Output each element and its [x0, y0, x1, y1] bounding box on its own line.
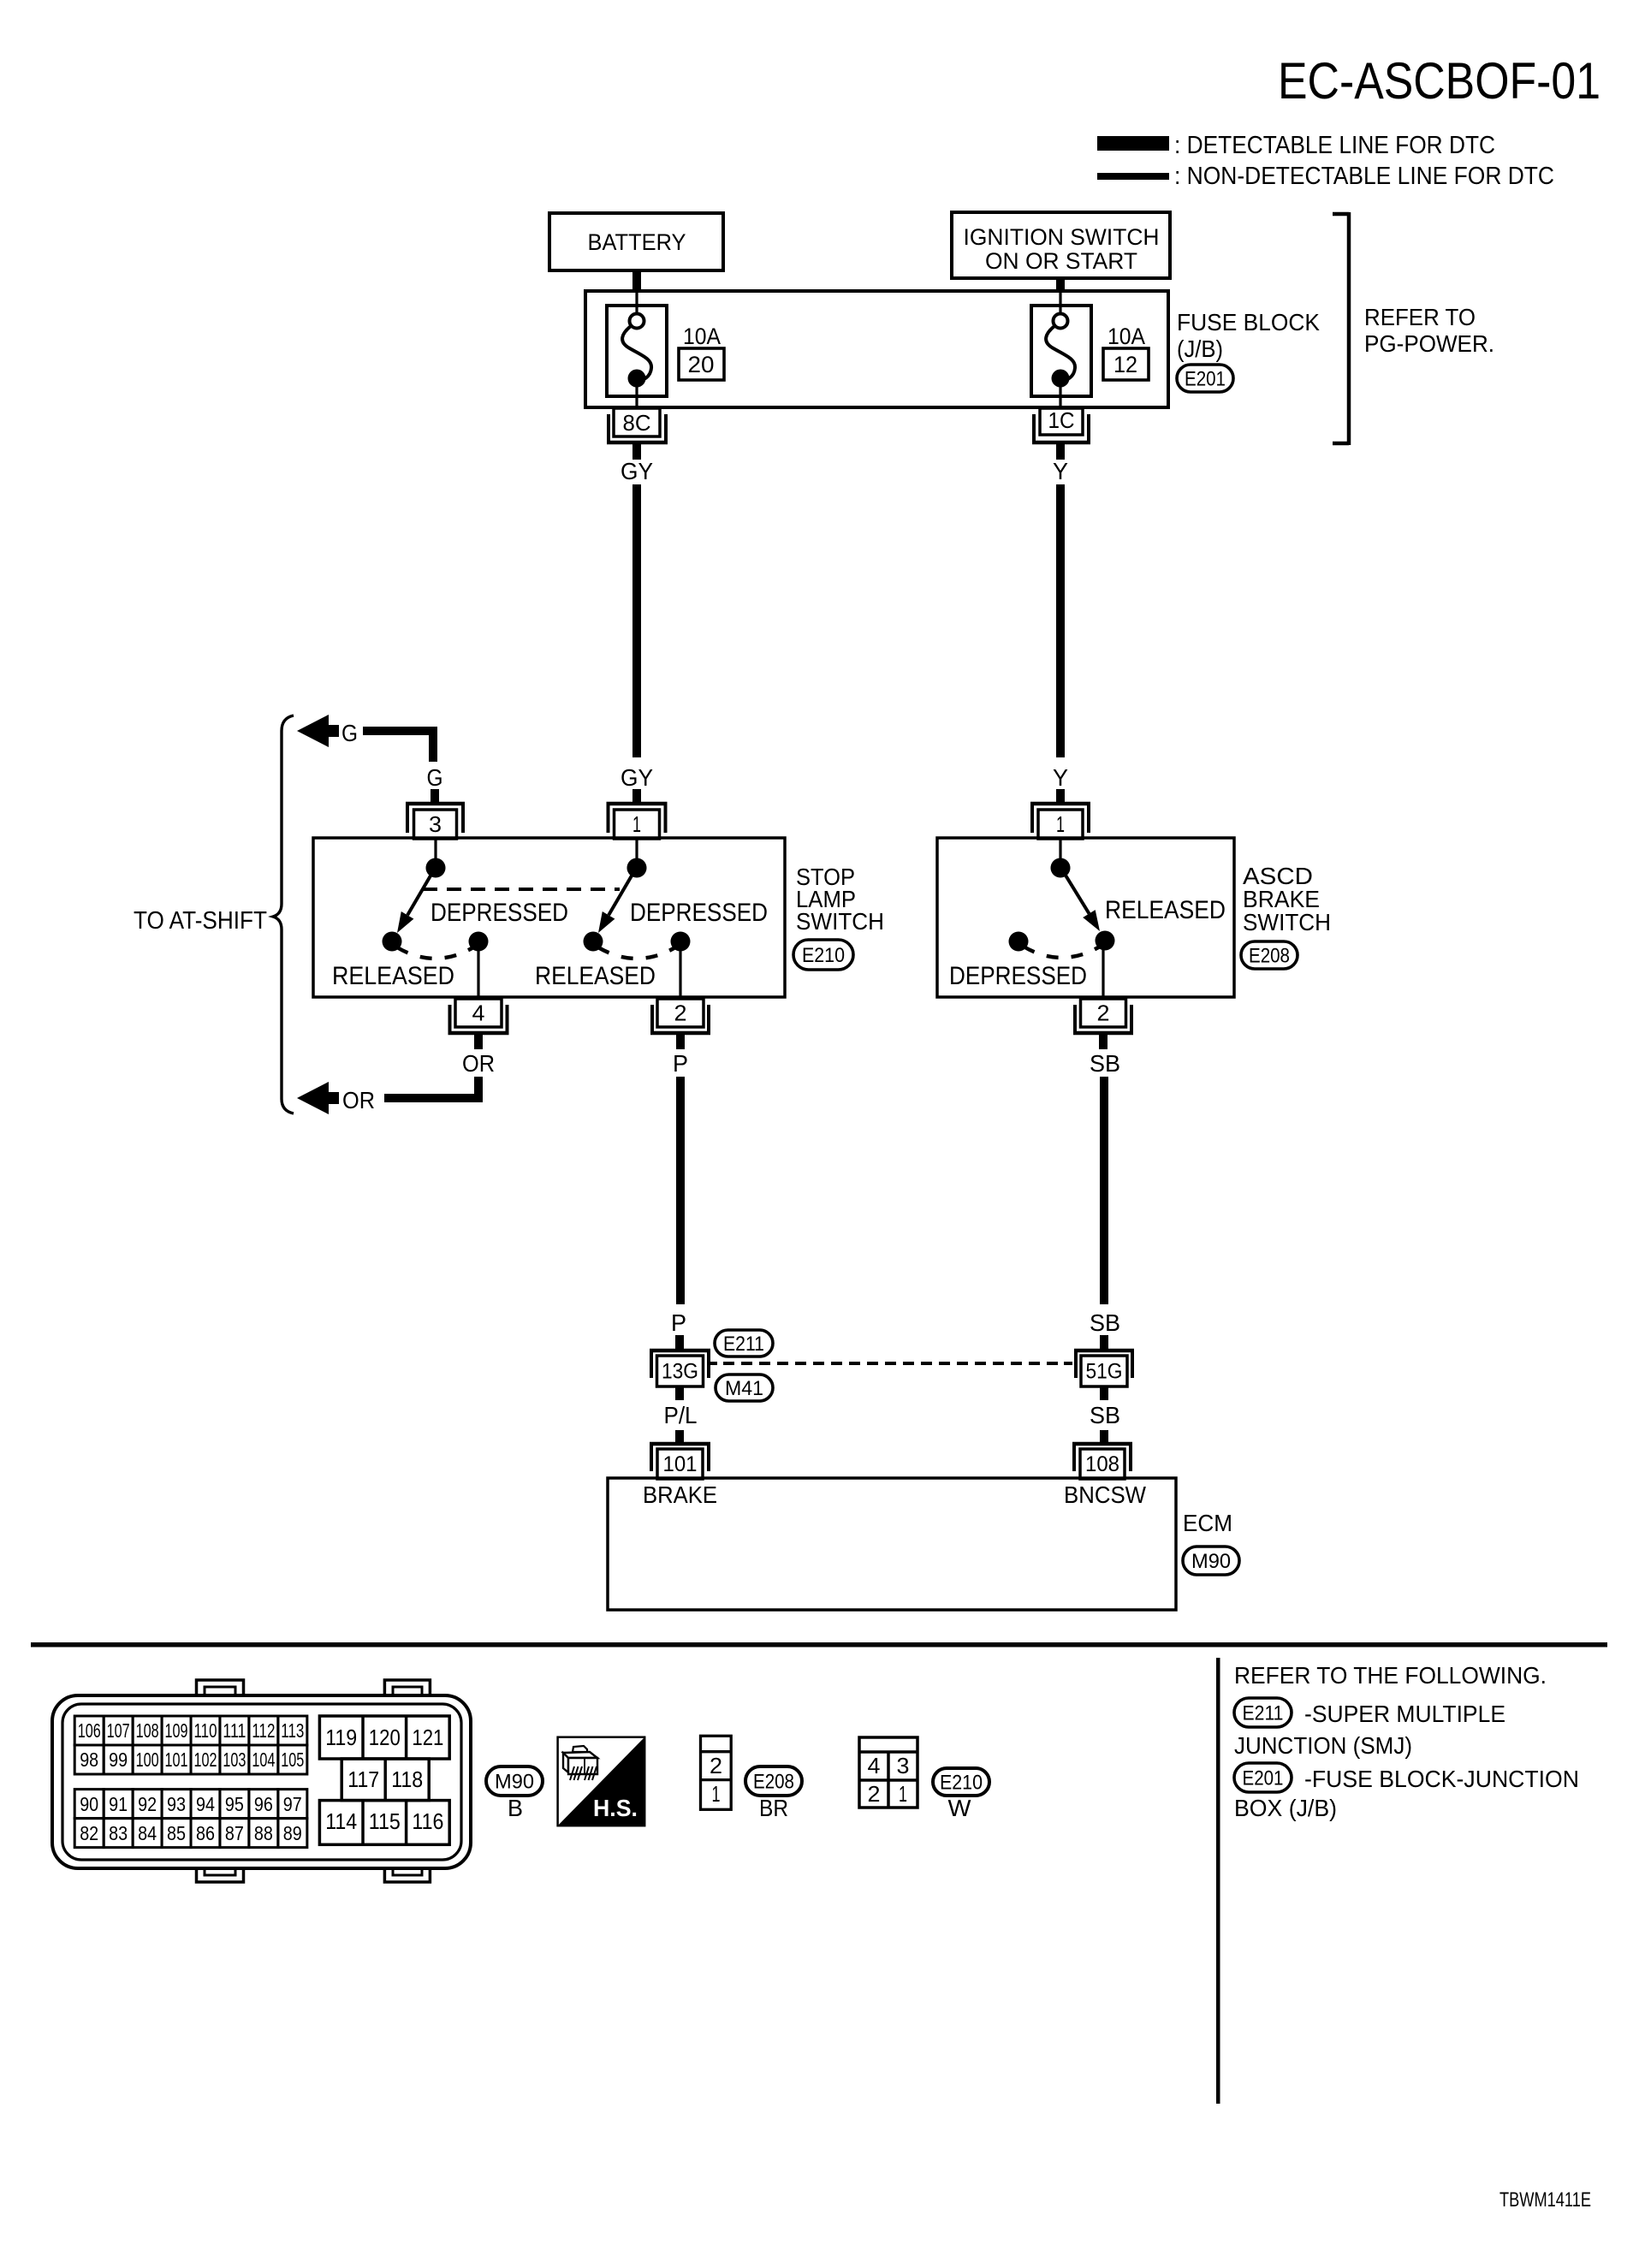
fuse 10A 20 symbol [607, 293, 667, 406]
svg-text:20: 20 [688, 352, 715, 377]
label RELEASED ASCD [1105, 896, 1226, 924]
svg-text:IGNITION SWITCH: IGNITION SWITCH [964, 224, 1160, 250]
wire G stub to pin 3 [431, 789, 439, 803]
connector E210 oval [793, 940, 853, 970]
battery box [549, 213, 723, 270]
SMJ dashed link 13G to 51G [709, 1362, 1072, 1365]
text super multiple junction [1234, 1701, 1505, 1759]
svg-text:Y: Y [1053, 764, 1068, 791]
svg-text:G: G [427, 764, 443, 791]
svg-text:113: 113 [281, 1719, 304, 1742]
svg-text:SWITCH: SWITCH [796, 908, 884, 935]
svg-text:M41: M41 [725, 1377, 763, 1400]
svg-text:101: 101 [165, 1748, 188, 1771]
svg-text:91: 91 [109, 1793, 128, 1815]
wire Y long vertical [1056, 484, 1065, 757]
svg-text:E210: E210 [802, 944, 845, 967]
svg-text:1: 1 [632, 811, 641, 837]
svg-text:DEPRESSED: DEPRESSED [431, 899, 568, 927]
svg-text:108: 108 [1085, 1452, 1119, 1476]
svg-text:1: 1 [712, 1781, 721, 1807]
ECM connector 101 [650, 1444, 710, 1479]
wire label Y lower [1053, 764, 1068, 791]
svg-text:SB: SB [1090, 1402, 1120, 1428]
ASCD brake switch pin 2 [1073, 999, 1133, 1033]
connector M90 oval bottom [486, 1766, 543, 1796]
connector E208 oval bottom [745, 1766, 802, 1796]
wire GY stub to pin 1 [632, 789, 641, 803]
svg-text:4: 4 [472, 1000, 485, 1025]
svg-text:87: 87 [225, 1822, 244, 1844]
stop lamp switch dashed throw arc 2 [598, 947, 675, 959]
ASCD switch arm arrow [1060, 867, 1100, 931]
label DEPRESSED 2 [630, 899, 768, 927]
svg-text:ECM: ECM [1183, 1510, 1232, 1536]
svg-text:B: B [508, 1795, 523, 1821]
svg-text:107: 107 [107, 1719, 130, 1742]
svg-text:JUNCTION (SMJ): JUNCTION (SMJ) [1234, 1732, 1412, 1759]
svg-text:112: 112 [252, 1719, 275, 1742]
legend non-detectable text [1174, 163, 1554, 190]
wire 51G down stub [1100, 1386, 1108, 1400]
refer to PG-POWER text [1364, 304, 1494, 357]
wire SB stub into 108 [1100, 1430, 1108, 1444]
svg-text:12: 12 [1113, 352, 1137, 377]
svg-text:108: 108 [136, 1719, 159, 1742]
label BNCSW [1064, 1481, 1147, 1508]
connector E211 oval [715, 1330, 773, 1357]
svg-text:-SUPER MULTIPLE: -SUPER MULTIPLE [1304, 1701, 1505, 1727]
ASCD switch contact wire [1059, 840, 1061, 863]
connector E210 oval bottom [933, 1768, 989, 1796]
svg-text:93: 93 [167, 1793, 186, 1815]
svg-text:: NON-DETECTABLE LINE FOR DTC: : NON-DETECTABLE LINE FOR DTC [1174, 163, 1554, 190]
ECM box [608, 1478, 1176, 1610]
connector E201 oval reference [1234, 1763, 1292, 1792]
wire label GY upper [621, 458, 653, 484]
connector 8C [607, 408, 668, 442]
svg-text:E211: E211 [723, 1333, 764, 1356]
svg-text:92: 92 [138, 1793, 157, 1815]
label G at arrow [341, 720, 358, 746]
svg-text:2: 2 [710, 1753, 722, 1778]
svg-text:111: 111 [223, 1719, 246, 1742]
connector M41 oval [716, 1374, 773, 1401]
legend non-detectable line sample [1097, 173, 1169, 180]
ASCD switch dashed throw arc [1024, 947, 1100, 958]
connector E208 oval [1241, 941, 1298, 969]
svg-text:116: 116 [412, 1808, 443, 1834]
svg-text:BATTERY: BATTERY [588, 229, 686, 255]
connector E208 pinout drawing [701, 1736, 732, 1809]
wire ASCD released dot to pin 2 [1102, 940, 1104, 997]
stop lamp switch dashed throw arc 1 [397, 947, 473, 959]
svg-text:E208: E208 [1249, 944, 1290, 967]
svg-text:-FUSE BLOCK-JUNCTION: -FUSE BLOCK-JUNCTION [1304, 1766, 1579, 1792]
wire label Y upper [1053, 458, 1068, 484]
svg-text:114: 114 [325, 1808, 357, 1834]
connector M90 oval [1183, 1547, 1239, 1575]
svg-text:SB: SB [1090, 1309, 1120, 1336]
connector E211 oval reference [1234, 1698, 1292, 1727]
refer to PG-POWER bracket [1333, 212, 1349, 445]
ECM connector M90 pinout drawing [52, 1680, 471, 1882]
stop lamp switch pin 4 [448, 999, 509, 1033]
connector E210 pinout drawing [859, 1737, 917, 1808]
svg-text:101: 101 [663, 1452, 698, 1476]
svg-text:P: P [671, 1309, 686, 1336]
svg-text:2: 2 [1097, 1000, 1110, 1025]
stop lamp switch pin 3 [406, 804, 465, 839]
svg-text:G: G [341, 720, 358, 746]
svg-text:H.S.: H.S. [593, 1795, 638, 1821]
stop lamp switch released dot 1R [469, 932, 489, 952]
svg-text:121: 121 [412, 1725, 443, 1750]
svg-text:BR: BR [759, 1795, 788, 1821]
stop lamp switch released dot 1L [383, 932, 402, 952]
svg-text:FUSE BLOCK: FUSE BLOCK [1177, 309, 1320, 335]
stop lamp switch arm 2 arrow [598, 867, 637, 933]
svg-text:SB: SB [1090, 1050, 1120, 1077]
svg-text:110: 110 [194, 1719, 217, 1742]
svg-text:118: 118 [391, 1766, 423, 1792]
ignition switch box [952, 212, 1170, 278]
svg-text:119: 119 [325, 1725, 357, 1750]
svg-text:RELEASED: RELEASED [1105, 896, 1226, 924]
svg-text:OR: OR [462, 1050, 495, 1077]
svg-text:100: 100 [136, 1748, 159, 1771]
svg-text:3: 3 [429, 811, 442, 837]
wire released dot to pin 2 [679, 942, 681, 997]
wire label G above pin 3 [427, 764, 443, 791]
svg-text:ON OR START: ON OR START [985, 248, 1137, 274]
fuse 12 rating label [1103, 324, 1149, 380]
svg-text:83: 83 [109, 1822, 128, 1844]
svg-text:1: 1 [1056, 811, 1065, 837]
wire SB stub into 51G [1100, 1335, 1108, 1350]
stop lamp switch pin 2 [650, 999, 710, 1033]
wire 1C down [1056, 444, 1065, 460]
wire 13G down stub [675, 1386, 684, 1400]
wire released dot to pin 4 [477, 942, 479, 997]
label B [508, 1795, 523, 1821]
svg-text:DEPRESSED: DEPRESSED [949, 962, 1087, 990]
wire ASCD pin 2 down [1099, 1035, 1108, 1049]
wire GY long vertical [632, 484, 641, 757]
label BRAKE [643, 1481, 717, 1508]
wire label P mid [671, 1309, 686, 1336]
stop lamp switch mechanical link dashed [423, 888, 620, 891]
wire label SB lower [1090, 1402, 1120, 1428]
svg-text:SWITCH: SWITCH [1243, 909, 1331, 935]
H.S. logo [558, 1737, 645, 1826]
svg-text:RELEASED: RELEASED [535, 962, 656, 990]
svg-text:10A: 10A [683, 324, 721, 349]
wire Y stub to pin 1 [1056, 789, 1065, 803]
svg-text:BOX (J/B): BOX (J/B) [1234, 1795, 1337, 1821]
stop lamp switch released dot 2L [584, 932, 603, 952]
svg-text:1: 1 [899, 1781, 907, 1807]
ASCD brake switch box [937, 838, 1234, 997]
svg-text:120: 120 [369, 1725, 401, 1750]
svg-text:W: W [948, 1795, 972, 1821]
wire OR to AT-SHIFT corner [384, 1077, 483, 1102]
bottom vertical divider [1216, 1658, 1220, 2104]
svg-text:P/L: P/L [664, 1402, 698, 1428]
svg-text:OR: OR [342, 1087, 375, 1113]
wire label P/L [664, 1402, 698, 1428]
connector E201 oval [1177, 365, 1233, 392]
svg-text:51G: 51G [1086, 1360, 1123, 1384]
label TO AT-SHIFT [134, 907, 267, 935]
svg-text:GY: GY [621, 458, 653, 484]
svg-text:115: 115 [369, 1808, 401, 1834]
label DEPRESSED ASCD [949, 962, 1087, 990]
svg-text:84: 84 [138, 1822, 157, 1844]
stop lamp switch box [313, 838, 785, 997]
ASCD switch depressed dot [1009, 932, 1029, 952]
wire ignition switch to fuse block [1056, 276, 1065, 292]
svg-text:(J/B): (J/B) [1177, 335, 1223, 362]
svg-text:BNCSW: BNCSW [1064, 1481, 1147, 1508]
svg-text:82: 82 [80, 1822, 98, 1844]
label ECM [1183, 1510, 1232, 1536]
svg-text:104: 104 [252, 1748, 275, 1771]
svg-text:106: 106 [78, 1719, 101, 1742]
svg-text:95: 95 [225, 1793, 244, 1815]
label RELEASED 1 [332, 962, 454, 990]
wire pin 4 down [474, 1035, 483, 1049]
stop lamp switch arm 1 arrow [397, 867, 436, 933]
wire G horizontal and corner [363, 727, 437, 762]
svg-text:BRAKE: BRAKE [643, 1481, 717, 1508]
svg-text:90: 90 [80, 1793, 98, 1815]
title EC-ASCBOF-01 [1278, 52, 1600, 110]
svg-text:M90: M90 [495, 1770, 534, 1793]
svg-text:: DETECTABLE LINE FOR DTC: : DETECTABLE LINE FOR DTC [1174, 132, 1495, 159]
svg-text:E208: E208 [753, 1770, 794, 1793]
ASCD brake switch label [1243, 863, 1331, 935]
arrow to AT-SHIFT wire OR [297, 1082, 339, 1114]
svg-text:1C: 1C [1048, 407, 1075, 433]
wire 8C down [632, 444, 641, 460]
fuse 20 rating label [679, 324, 724, 380]
label BR [759, 1795, 788, 1821]
wire label GY lower [621, 764, 653, 791]
to AT-SHIFT brace [273, 715, 294, 1113]
svg-text:86: 86 [196, 1822, 215, 1844]
svg-text:4: 4 [868, 1753, 881, 1778]
ECM connector 108 [1072, 1444, 1132, 1479]
svg-text:13G: 13G [662, 1360, 698, 1384]
separator line [31, 1642, 1607, 1648]
ASCD brake switch pin 1 [1030, 804, 1090, 839]
svg-text:EC-ASCBOF-01: EC-ASCBOF-01 [1278, 52, 1600, 110]
wire label SB mid [1090, 1309, 1120, 1336]
svg-text:E201: E201 [1185, 367, 1226, 390]
svg-text:P: P [673, 1050, 688, 1077]
label W [948, 1795, 972, 1821]
ASCD switch common dot [1051, 858, 1071, 878]
stop lamp switch contact 2 wire [635, 840, 638, 863]
label DEPRESSED 1 [431, 899, 568, 927]
ASCD switch released dot [1096, 931, 1115, 951]
wire label SB upper [1090, 1050, 1120, 1077]
wire P stub into 13G [675, 1335, 684, 1350]
svg-text:105: 105 [281, 1748, 304, 1771]
wire P long vertical [676, 1077, 685, 1304]
wire label P upper [673, 1050, 688, 1077]
stop lamp switch pin 1 [607, 804, 668, 839]
svg-text:97: 97 [283, 1793, 302, 1815]
svg-text:117: 117 [347, 1766, 379, 1792]
svg-text:88: 88 [254, 1822, 273, 1844]
svg-text:REFER TO: REFER TO [1364, 304, 1476, 330]
wire SB long vertical [1100, 1077, 1108, 1304]
ECM connector left pin grid rows 90-97 / 82-89 [74, 1790, 307, 1848]
svg-text:DEPRESSED: DEPRESSED [630, 899, 768, 927]
label OR at arrow [342, 1087, 375, 1113]
svg-text:3: 3 [897, 1753, 910, 1778]
fuse block label [1177, 309, 1320, 362]
stop lamp switch released dot 2R [671, 932, 691, 952]
wire label OR upper [462, 1050, 495, 1077]
wire pin 2 down [676, 1035, 685, 1049]
svg-text:E210: E210 [940, 1771, 983, 1794]
text fuse block junction box [1234, 1766, 1579, 1821]
svg-text:8C: 8C [623, 410, 651, 436]
fuse 10A 12 symbol [1031, 293, 1091, 406]
svg-text:PG-POWER.: PG-POWER. [1364, 330, 1494, 357]
legend detectable line sample [1097, 136, 1169, 151]
svg-text:89: 89 [283, 1822, 302, 1844]
svg-text:96: 96 [254, 1793, 273, 1815]
connector 1C [1032, 407, 1090, 442]
svg-text:109: 109 [165, 1719, 188, 1742]
svg-text:M90: M90 [1191, 1550, 1231, 1573]
svg-text:REFER TO THE FOLLOWING.: REFER TO THE FOLLOWING. [1234, 1662, 1547, 1689]
svg-text:TO AT-SHIFT: TO AT-SHIFT [134, 907, 267, 935]
svg-text:TBWM1411E: TBWM1411E [1499, 2188, 1591, 2212]
stop lamp switch contact 2 common dot [627, 858, 647, 878]
svg-text:2: 2 [674, 1000, 687, 1025]
svg-text:10A: 10A [1108, 324, 1145, 349]
wire battery to fuse block [632, 269, 641, 292]
svg-text:RELEASED: RELEASED [332, 962, 454, 990]
fuse block J/B outline [585, 291, 1168, 407]
SMJ connector 13G [650, 1351, 710, 1386]
svg-text:GY: GY [621, 764, 653, 791]
figure code TBWM1411E [1499, 2188, 1591, 2212]
stop lamp switch contact 1 common dot [426, 858, 446, 878]
svg-text:103: 103 [223, 1748, 246, 1771]
wire P/L stub into 101 [675, 1430, 684, 1444]
svg-text:Y: Y [1053, 458, 1068, 484]
svg-text:98: 98 [80, 1748, 98, 1771]
SMJ connector 51G [1074, 1351, 1134, 1386]
legend detectable text [1174, 132, 1495, 159]
ECM connector left pin grid rows 106-113 / 98-105 [74, 1716, 307, 1774]
label RELEASED 2 [535, 962, 656, 990]
svg-text:94: 94 [196, 1793, 215, 1815]
refer to the following text block [1234, 1662, 1547, 1689]
svg-text:E201: E201 [1243, 1766, 1284, 1790]
svg-text:E211: E211 [1243, 1701, 1284, 1725]
svg-text:85: 85 [167, 1822, 186, 1844]
svg-text:99: 99 [109, 1748, 128, 1771]
svg-text:2: 2 [868, 1781, 881, 1807]
ECM connector right pin group 119-121 117-118 114-116 [319, 1716, 449, 1844]
stop lamp switch contact 1 wire [434, 840, 436, 863]
svg-text:102: 102 [194, 1748, 217, 1771]
stop lamp switch label [796, 864, 884, 935]
arrow to AT-SHIFT wire G [297, 715, 339, 747]
